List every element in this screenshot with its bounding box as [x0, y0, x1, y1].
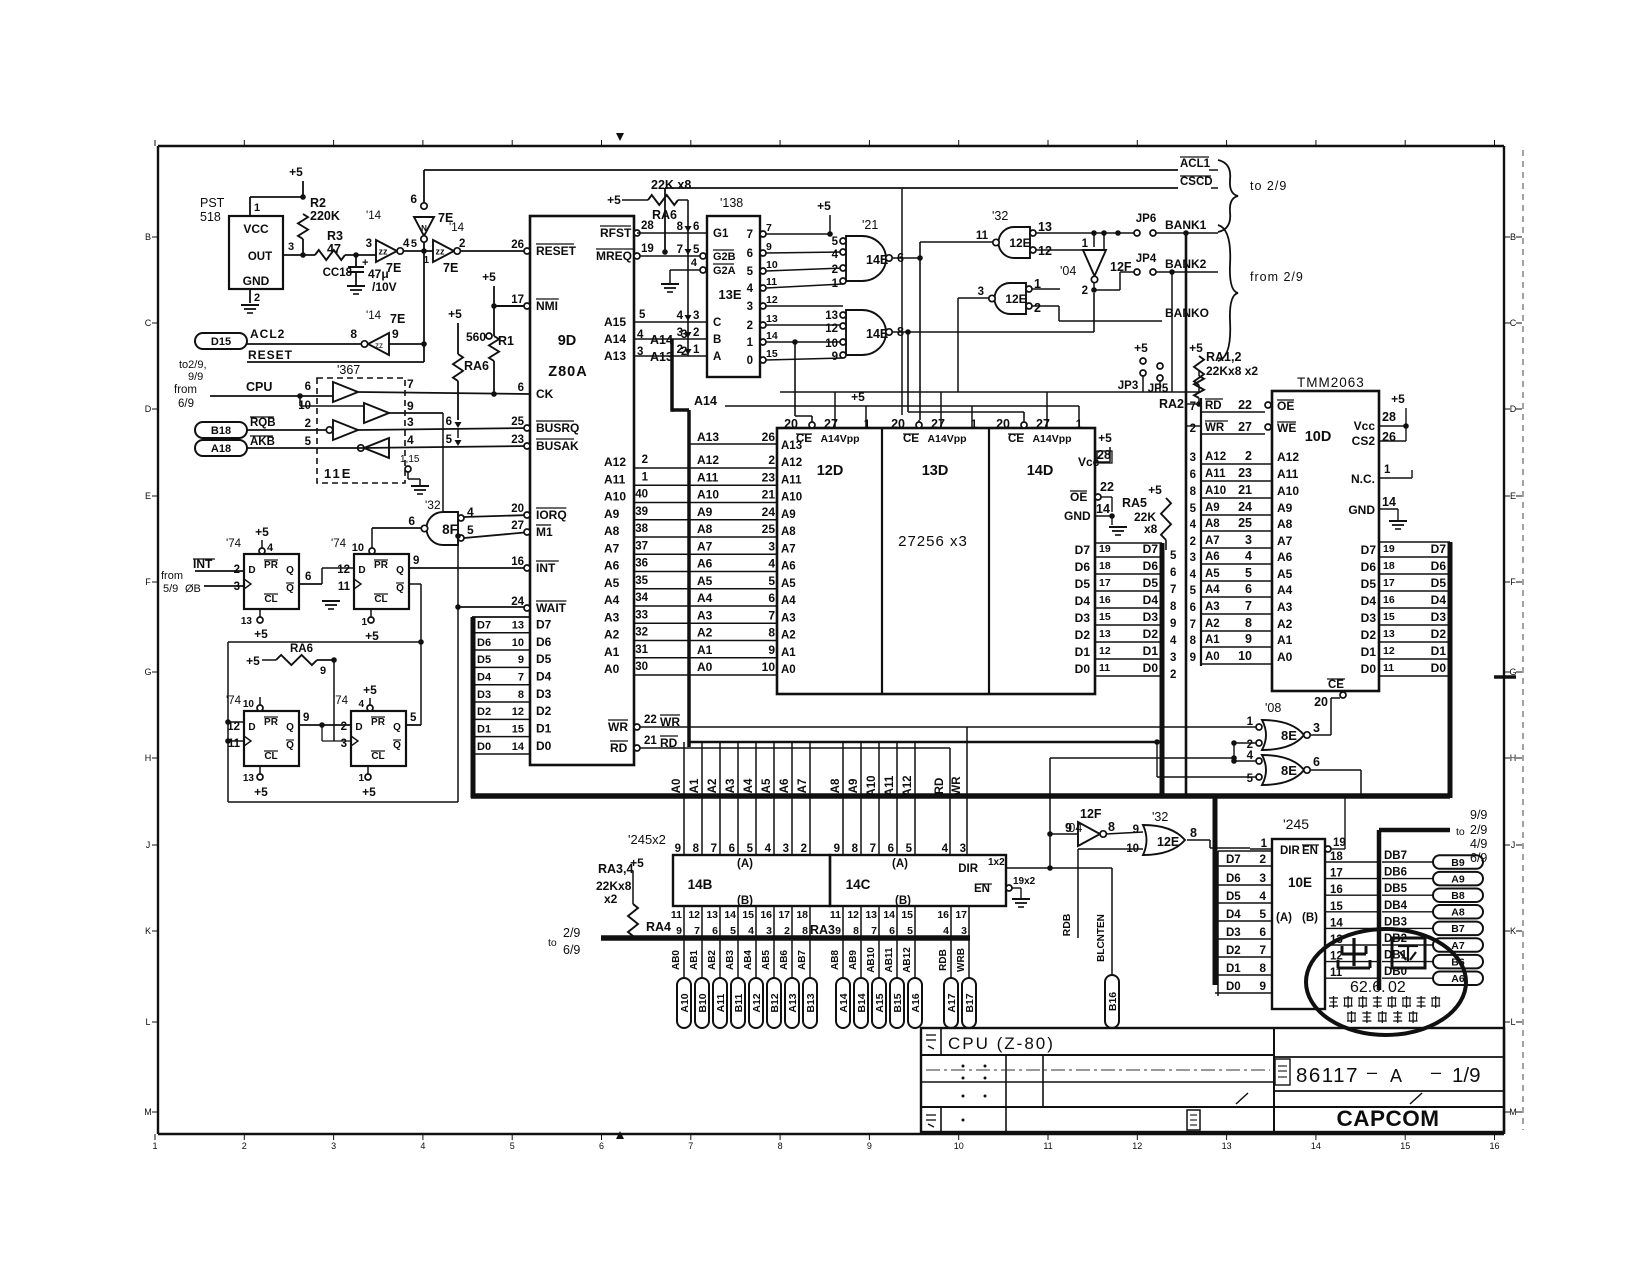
- svg-text:6: 6: [305, 381, 311, 393]
- svg-text:34: 34: [635, 592, 648, 604]
- svg-text:5: 5: [1259, 907, 1266, 921]
- svg-text:R2: R2: [310, 196, 326, 210]
- svg-text:D6: D6: [1361, 560, 1377, 574]
- voltage monitor PST518 box: [229, 216, 283, 289]
- svg-text:6: 6: [518, 382, 524, 394]
- svg-text:JP4: JP4: [1136, 253, 1157, 265]
- svg-text:3: 3: [1245, 533, 1252, 547]
- svg-text:x8: x8: [1144, 522, 1158, 536]
- svg-text:K: K: [1510, 926, 1516, 936]
- svg-text:D1: D1: [1075, 645, 1091, 659]
- svg-text:A8: A8: [781, 526, 796, 538]
- svg-text:D5: D5: [1431, 576, 1447, 590]
- svg-text:D6: D6: [1226, 873, 1241, 885]
- svg-text:+5: +5: [1189, 341, 1203, 355]
- 14C bottom pin 16/4: [950, 906, 952, 938]
- 10F input routing: [228, 721, 244, 723]
- 14C bottom pin 12/8: [860, 906, 862, 938]
- svg-text:from 2/9: from 2/9: [1250, 270, 1304, 284]
- svg-text:16: 16: [1330, 884, 1343, 896]
- svg-text:8: 8: [1190, 486, 1197, 498]
- svg-text:D0: D0: [1361, 662, 1377, 676]
- heavy bus left vertical: [471, 617, 476, 798]
- svg-text:2: 2: [1170, 669, 1176, 681]
- svg-text:A1: A1: [781, 647, 796, 659]
- svg-text:3: 3: [1170, 652, 1176, 664]
- svg-text:23: 23: [762, 470, 776, 484]
- svg-text:'138: '138: [720, 196, 743, 210]
- svg-text:A5: A5: [761, 778, 773, 793]
- svg-text:to: to: [548, 937, 557, 949]
- svg-text:28: 28: [1097, 448, 1111, 462]
- connector B17 (WRB): [968, 938, 970, 978]
- svg-text:6/9: 6/9: [1470, 851, 1487, 865]
- svg-text:D1: D1: [1143, 644, 1159, 658]
- svg-text:A11: A11: [884, 775, 896, 796]
- column A0: [683, 742, 685, 855]
- svg-text:D5: D5: [1075, 577, 1091, 591]
- svg-text:14: 14: [883, 909, 895, 921]
- svg-text:BUSRQ: BUSRQ: [536, 421, 579, 435]
- svg-text:7E: 7E: [386, 261, 401, 275]
- svg-text:G2B: G2B: [713, 251, 736, 263]
- svg-text:ACL1: ACL1: [1180, 158, 1211, 170]
- svg-text:D: D: [1510, 404, 1517, 414]
- svg-text:zz: zz: [375, 341, 383, 350]
- svg-text:A5: A5: [1205, 568, 1220, 580]
- svg-text:8E: 8E: [1281, 763, 1297, 778]
- 14C bottom pin 13/7: [878, 906, 880, 938]
- svg-text:6: 6: [446, 416, 452, 428]
- feedback loop wires: [228, 641, 421, 643]
- svg-text:A2: A2: [781, 630, 796, 642]
- buffer 11E d points left: [364, 438, 389, 458]
- svg-text:3: 3: [331, 1141, 336, 1151]
- svg-text:5: 5: [906, 843, 913, 855]
- 14B bottom pin 18/8: [809, 906, 811, 938]
- svg-text:9: 9: [835, 925, 841, 937]
- svg-text:5: 5: [768, 574, 775, 588]
- svg-text:M: M: [1509, 1107, 1517, 1117]
- svg-text:CAPCOM: CAPCOM: [1337, 1106, 1440, 1131]
- svg-text:4: 4: [1259, 889, 1266, 903]
- buffer 11E a: [333, 382, 358, 402]
- brace from 2/9: [1218, 225, 1238, 361]
- svg-text:9: 9: [1133, 824, 1139, 836]
- svg-text:WE: WE: [1277, 421, 1296, 435]
- svg-text:15: 15: [1099, 611, 1111, 623]
- EPROM block 27256x3: [777, 428, 1095, 694]
- connector B10 (AB1): [701, 938, 703, 978]
- svg-text:14B: 14B: [688, 877, 713, 892]
- connector B13 (AB7): [809, 938, 811, 978]
- svg-text:1: 1: [747, 337, 754, 349]
- svg-text:A0: A0: [697, 660, 713, 674]
- svg-text:INT: INT: [536, 561, 556, 575]
- column A1: [701, 742, 703, 855]
- svg-text:PR: PR: [264, 560, 279, 571]
- svg-text:1x2: 1x2: [988, 857, 1005, 868]
- svg-text:A5: A5: [697, 574, 713, 588]
- svg-text:5: 5: [1190, 585, 1197, 597]
- 10E pin 6 D3: [1215, 938, 1272, 940]
- border frame: [158, 145, 1504, 147]
- svg-text:4: 4: [407, 433, 414, 447]
- svg-text:'04: '04: [1060, 264, 1076, 278]
- svg-text:12F: 12F: [1080, 807, 1102, 821]
- svg-text:3: 3: [1190, 452, 1196, 464]
- svg-text:M1: M1: [536, 525, 553, 539]
- svg-text:A2: A2: [707, 779, 719, 794]
- svg-text:D6: D6: [1143, 559, 1159, 573]
- registration marks: [616, 133, 624, 141]
- svg-text:4: 4: [768, 557, 775, 571]
- svg-text:1: 1: [358, 773, 364, 784]
- 9F a outputs to 9F b: [299, 583, 322, 585]
- svg-text:A4: A4: [604, 593, 620, 607]
- svg-text:D3: D3: [1075, 611, 1091, 625]
- brace to 2/9: [1218, 160, 1238, 232]
- svg-text:A10: A10: [697, 488, 719, 502]
- svg-text:Q: Q: [286, 722, 294, 733]
- svg-text:NMI: NMI: [536, 299, 558, 313]
- svg-text:2: 2: [693, 327, 699, 339]
- svg-text:A11: A11: [1205, 468, 1226, 480]
- svg-text:'32: '32: [1152, 810, 1168, 824]
- svg-text:'74: '74: [331, 538, 347, 550]
- svg-text:AB11: AB11: [884, 947, 895, 972]
- svg-text:D4: D4: [1226, 909, 1241, 921]
- 10E EN pin 19: [1325, 846, 1331, 852]
- svg-text:5: 5: [639, 309, 646, 321]
- svg-text:4: 4: [358, 699, 364, 710]
- svg-text:A4: A4: [1277, 583, 1293, 597]
- svg-text:A12: A12: [751, 993, 763, 1012]
- svg-text:B17: B17: [964, 993, 976, 1012]
- svg-text:EN: EN: [1302, 845, 1318, 857]
- svg-text:3: 3: [747, 301, 753, 313]
- NAND 12E b (mirrored): [994, 283, 1026, 314]
- svg-text:8: 8: [693, 843, 700, 855]
- svg-text:3: 3: [1313, 721, 1320, 735]
- Z80 pin 22 WR: [634, 724, 640, 730]
- Z80 pin 17 NMI: [524, 303, 530, 309]
- svg-text:GND: GND: [243, 274, 270, 288]
- svg-text:22: 22: [644, 714, 657, 726]
- A14Vpp taps: [865, 406, 867, 428]
- svg-text:to2/9,: to2/9,: [179, 359, 207, 371]
- svg-text:A11: A11: [604, 472, 626, 486]
- svg-text:C: C: [1510, 318, 1517, 328]
- svg-text:6: 6: [729, 843, 735, 855]
- svg-text:CL: CL: [374, 594, 387, 605]
- 10E pin 3 D6: [1215, 884, 1272, 886]
- svg-text:from: from: [161, 570, 183, 582]
- svg-text:D2: D2: [477, 706, 491, 718]
- 13E output wires: [766, 233, 830, 235]
- svg-text:6: 6: [410, 192, 417, 206]
- svg-text:5: 5: [730, 925, 736, 937]
- svg-text:A2: A2: [697, 626, 713, 640]
- svg-text:21: 21: [1238, 483, 1252, 497]
- svg-text:A0: A0: [1277, 650, 1293, 664]
- heavy bus 10E right: [1377, 830, 1382, 990]
- svg-text:RDB: RDB: [1061, 913, 1073, 936]
- svg-text:1: 1: [1082, 238, 1089, 250]
- svg-text:5/9: 5/9: [163, 583, 178, 595]
- svg-text:12: 12: [1099, 645, 1111, 657]
- svg-text:AB6: AB6: [779, 950, 790, 970]
- column A10: [878, 742, 880, 855]
- 14B bottom pin 13/6: [719, 906, 721, 938]
- svg-text:D0: D0: [1226, 981, 1241, 993]
- svg-text:D4: D4: [477, 671, 492, 683]
- connector A18: [195, 440, 247, 456]
- svg-text:220K: 220K: [310, 209, 340, 223]
- capacitor CC18 47u/10V: [355, 255, 357, 267]
- svg-text:VCC: VCC: [243, 222, 269, 236]
- svg-text:A13: A13: [697, 430, 719, 444]
- flip-flop 10F b: [351, 711, 406, 766]
- column A8: [842, 742, 844, 855]
- svg-text:A10: A10: [1277, 484, 1299, 498]
- svg-text:A10: A10: [1205, 485, 1226, 497]
- svg-text:21: 21: [644, 735, 657, 747]
- title block: [921, 1028, 1504, 1132]
- svg-text:5: 5: [907, 925, 913, 937]
- svg-text:15: 15: [742, 909, 754, 921]
- svg-text:RA4: RA4: [646, 920, 671, 934]
- svg-text:22Kx8: 22Kx8: [596, 879, 632, 893]
- NMI wire: [494, 305, 524, 307]
- svg-text:6/9: 6/9: [563, 943, 580, 957]
- svg-text:D: D: [248, 565, 255, 576]
- svg-text:10: 10: [1238, 649, 1252, 663]
- svg-text:+5: +5: [255, 525, 269, 539]
- svg-text:A1: A1: [604, 645, 620, 659]
- svg-text:'74: '74: [333, 695, 349, 707]
- svg-text:'245: '245: [1283, 816, 1309, 832]
- svg-text:+5: +5: [254, 785, 268, 799]
- svg-text:AB3: AB3: [725, 950, 736, 970]
- CE stubs: [811, 420, 813, 425]
- svg-text:DB3: DB3: [1384, 916, 1407, 928]
- svg-text:12: 12: [688, 909, 700, 921]
- svg-text:25: 25: [762, 522, 776, 536]
- svg-text:7: 7: [1245, 599, 1252, 613]
- svg-text:14: 14: [1311, 1141, 1321, 1151]
- svg-text:8: 8: [518, 689, 524, 701]
- svg-text:4: 4: [267, 542, 274, 554]
- 10E pin 2 D7: [1215, 865, 1272, 867]
- svg-text:A9: A9: [1277, 501, 1293, 515]
- svg-text:+5: +5: [1148, 483, 1162, 497]
- svg-text:13D: 13D: [922, 463, 949, 479]
- column A5: [773, 742, 775, 855]
- Z80 D-bus stack box: [472, 616, 530, 618]
- right dashed margin line: [1522, 150, 1524, 1130]
- svg-text:(A): (A): [737, 858, 753, 870]
- svg-text:19: 19: [1333, 837, 1346, 849]
- svg-text:5: 5: [747, 266, 754, 278]
- svg-text:B: B: [713, 334, 721, 346]
- svg-text:A0: A0: [1205, 651, 1220, 663]
- svg-text:2: 2: [1190, 423, 1196, 435]
- heavy bus to 10E: [1213, 796, 1218, 985]
- svg-text:4: 4: [748, 925, 754, 937]
- connector A13 (AB6): [791, 938, 793, 978]
- svg-text:17: 17: [778, 909, 790, 921]
- svg-text:A10: A10: [679, 993, 691, 1012]
- 14B bottom pin 12/7: [701, 906, 703, 938]
- svg-text:62.6.: 62.6.: [1350, 979, 1386, 996]
- svg-text:A7: A7: [697, 539, 713, 553]
- svg-text:B16: B16: [1107, 992, 1119, 1011]
- svg-text:A14Vpp: A14Vpp: [1032, 433, 1071, 445]
- svg-text:16: 16: [1383, 594, 1395, 606]
- svg-text:D7: D7: [1361, 543, 1377, 557]
- svg-text:2: 2: [1190, 536, 1196, 548]
- svg-text:11: 11: [1043, 1141, 1052, 1151]
- svg-text:AB10: AB10: [866, 947, 877, 973]
- column A6: [791, 742, 793, 855]
- svg-text:560: 560: [466, 330, 486, 344]
- title block dots: [962, 1065, 965, 1068]
- svg-text:5: 5: [832, 236, 839, 248]
- svg-text:+5: +5: [362, 785, 376, 799]
- svg-text:9: 9: [768, 643, 775, 657]
- svg-text:to: to: [1456, 826, 1465, 838]
- column A12: [914, 742, 916, 855]
- 12F/12E wiring: [1049, 758, 1051, 868]
- svg-text:C: C: [713, 317, 721, 329]
- svg-text:11: 11: [671, 909, 682, 921]
- svg-text:3: 3: [366, 238, 372, 250]
- svg-text:'367: '367: [337, 363, 360, 377]
- svg-text:RESET: RESET: [248, 348, 293, 362]
- svg-text:9: 9: [303, 712, 309, 724]
- svg-text:RA2: RA2: [1159, 397, 1184, 411]
- drawing number cell: [1274, 1056, 1504, 1058]
- resistor R1 560: [486, 333, 492, 339]
- BLCNTEN label and B16: [1111, 868, 1113, 975]
- column RD: [949, 748, 951, 855]
- svg-text:D: D: [145, 404, 152, 414]
- svg-text:1: 1: [832, 278, 839, 290]
- svg-text:A9: A9: [781, 509, 796, 521]
- svg-text:12: 12: [337, 564, 350, 576]
- svg-text:7E: 7E: [443, 261, 458, 275]
- svg-text:14E: 14E: [866, 253, 888, 267]
- svg-text:3: 3: [766, 925, 772, 937]
- svg-text:D3: D3: [1226, 927, 1241, 939]
- svg-text:Q: Q: [286, 740, 294, 751]
- svg-text:A14: A14: [650, 333, 673, 347]
- svg-text:10: 10: [766, 259, 778, 271]
- svg-text:CE: CE: [1008, 433, 1024, 445]
- svg-text:7: 7: [688, 1141, 693, 1151]
- svg-text:BANK1: BANK1: [1165, 218, 1207, 232]
- svg-text:7: 7: [766, 222, 772, 234]
- svg-text:4: 4: [403, 238, 410, 250]
- svg-text:D6: D6: [1075, 560, 1091, 574]
- CPU clock wire: [210, 395, 333, 397]
- svg-text:R1: R1: [498, 334, 514, 348]
- svg-text:1: 1: [693, 344, 700, 356]
- 14B bottom pin 14/5: [737, 906, 739, 938]
- svg-text:D1: D1: [1431, 644, 1447, 658]
- WAIT wire: [458, 606, 524, 608]
- svg-text:5: 5: [410, 712, 417, 724]
- svg-text:+5: +5: [1391, 392, 1405, 406]
- svg-text:A7: A7: [797, 779, 809, 794]
- svg-text:A3: A3: [697, 608, 713, 622]
- svg-text:A12: A12: [902, 775, 914, 796]
- svg-text:(B): (B): [1302, 912, 1318, 924]
- svg-text:A0: A0: [781, 664, 796, 676]
- column A9: [860, 742, 862, 855]
- connector A15 (AB10): [878, 938, 880, 978]
- svg-text:12: 12: [1038, 244, 1052, 258]
- svg-text:1: 1: [1076, 419, 1083, 431]
- heavy data bus from 14D stack: [1160, 543, 1165, 796]
- svg-text:13: 13: [825, 310, 838, 322]
- IC 11E 367 dashed box: [317, 378, 405, 483]
- svg-text:6: 6: [1313, 755, 1320, 769]
- svg-text:A12: A12: [781, 457, 802, 469]
- title block small stamp cell: [1187, 1110, 1200, 1130]
- svg-text:9: 9: [392, 327, 399, 341]
- svg-text:D7: D7: [536, 618, 552, 632]
- svg-text:+5: +5: [630, 856, 644, 870]
- svg-text:5: 5: [747, 843, 754, 855]
- svg-text:22K x8: 22K x8: [651, 178, 691, 192]
- bank vertical lines: [1185, 233, 1188, 796]
- connector B11 (AB3): [737, 938, 739, 978]
- svg-text:33: 33: [635, 609, 648, 621]
- svg-text:8: 8: [852, 843, 859, 855]
- svg-text:19: 19: [1099, 543, 1111, 555]
- svg-text:11: 11: [976, 230, 989, 242]
- svg-text:RA1,2: RA1,2: [1206, 350, 1241, 364]
- Z80 pin 24 WAIT: [524, 605, 530, 611]
- svg-text:D3: D3: [1143, 610, 1159, 624]
- svg-text:14: 14: [724, 909, 736, 921]
- svg-text:J: J: [1511, 840, 1516, 850]
- svg-text:17: 17: [955, 909, 967, 921]
- svg-text:D6: D6: [1431, 559, 1447, 573]
- svg-text:A1: A1: [1277, 633, 1293, 647]
- svg-text:2: 2: [1245, 449, 1252, 463]
- svg-text:'14: '14: [366, 310, 382, 322]
- svg-text:4: 4: [1245, 549, 1252, 563]
- svg-text:A4: A4: [1205, 584, 1220, 596]
- svg-text:D4: D4: [1143, 593, 1159, 607]
- wire watchdog to ACL1 rail: [423, 170, 425, 203]
- svg-text:16: 16: [511, 556, 524, 568]
- svg-text:D0: D0: [477, 741, 491, 753]
- svg-text:3: 3: [978, 286, 984, 298]
- svg-text:8: 8: [677, 221, 684, 233]
- svg-text:9: 9: [1065, 821, 1072, 835]
- svg-text:17: 17: [1330, 868, 1343, 880]
- svg-text:PR: PR: [374, 560, 389, 571]
- svg-text:5: 5: [693, 244, 700, 256]
- 14B bottom pin 16/3: [773, 906, 775, 938]
- 8F input wires from Z80: [464, 515, 530, 517]
- svg-text:5: 5: [510, 1141, 515, 1151]
- svg-text:to 2/9: to 2/9: [1250, 179, 1287, 193]
